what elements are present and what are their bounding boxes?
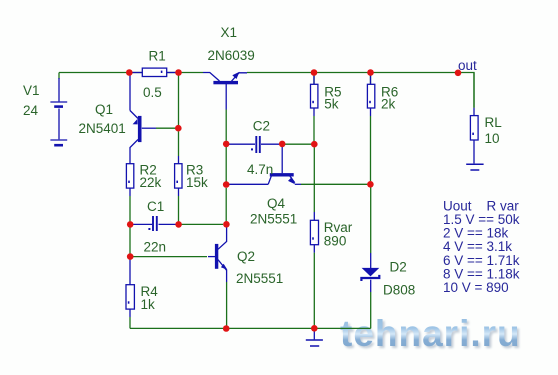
svg-text:10: 10 [485,131,500,146]
svg-text:2k: 2k [381,97,396,112]
svg-text:Q1: Q1 [95,102,113,117]
svg-text:out: out [458,58,477,73]
svg-text:C1: C1 [147,199,164,214]
svg-text:RL: RL [485,115,503,130]
svg-text:2N5401: 2N5401 [79,121,126,136]
svg-text:X1: X1 [221,25,238,40]
svg-text:1k: 1k [141,297,156,312]
svg-text:22n: 22n [144,239,167,254]
svg-text:D2: D2 [390,260,407,275]
svg-text:24: 24 [23,103,39,118]
svg-text:890: 890 [324,234,347,249]
svg-text:R1: R1 [149,49,166,64]
svg-text:D808: D808 [383,283,415,298]
svg-text:15k: 15k [186,175,208,190]
svg-text:0.5: 0.5 [143,85,162,100]
svg-text:Q2: Q2 [237,249,255,264]
svg-text:10 V = 890: 10 V = 890 [443,280,509,295]
svg-text:2N5551: 2N5551 [250,212,297,227]
svg-text:4 V == 3.1k: 4 V == 3.1k [443,239,512,254]
svg-text:Q4: Q4 [267,196,286,211]
svg-text:2N5551: 2N5551 [236,271,283,286]
svg-text:2N6039: 2N6039 [208,48,255,63]
svg-text:V1: V1 [23,83,40,98]
svg-text:22k: 22k [140,175,162,190]
svg-text:5k: 5k [324,97,339,112]
svg-text:4.7n: 4.7n [247,162,273,177]
svg-text:C2: C2 [253,119,270,134]
